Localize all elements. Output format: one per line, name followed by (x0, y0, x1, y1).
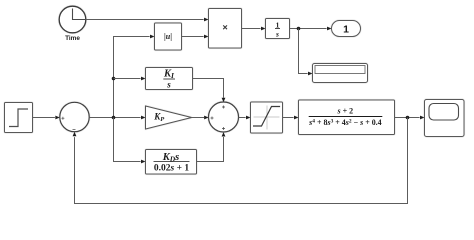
wire saturation to transfer fcn (283, 116, 299, 120)
wire step to sum S1 (33, 116, 60, 120)
display block (313, 64, 368, 83)
step symbol (9, 109, 28, 127)
Kp gain triangle (146, 106, 192, 129)
saturation block (251, 102, 283, 133)
fraction bar (309, 116, 383, 118)
wire KI to sum S2 top (193, 79, 226, 103)
saturation curve (253, 107, 280, 127)
junction node after integrator (297, 27, 301, 31)
S2 plus sign bottom (222, 127, 225, 130)
junction node after transfer fcn (406, 116, 410, 120)
wire branch down to KD (114, 118, 146, 164)
wire clock to product input 1 (86, 18, 209, 22)
outport oval 1 (332, 21, 361, 37)
S2 plus sign left (211, 117, 214, 120)
wire Kp to sum S2 left (192, 116, 209, 120)
junction node at KI row (112, 77, 116, 81)
product block (209, 9, 242, 49)
S1 plus sign (left input) (61, 117, 64, 120)
transfer fcn block (299, 100, 395, 135)
wire S1 output to Kp gain (89, 116, 145, 120)
wire branch to KI (114, 77, 146, 81)
S2 plus sign top (222, 106, 225, 109)
KD block (146, 150, 197, 175)
integrator block 1/s (266, 19, 290, 39)
clock block (Time source) (59, 6, 86, 33)
wire transfer fcn to scope (395, 116, 425, 120)
wire integrator to outport 1 (290, 27, 332, 31)
display screen (315, 66, 365, 74)
sum S2 (209, 102, 239, 132)
svg-text:KI: KI (163, 69, 175, 81)
svg-text:|u|: |u| (164, 32, 172, 41)
scope block (425, 100, 465, 137)
S1 minus sign (bottom input) (73, 129, 76, 131)
wire S2 to saturation (239, 116, 251, 120)
wire branch vertical up to abs row (114, 35, 155, 118)
svg-text:s: s (275, 29, 279, 38)
svg-text:s + 2: s + 2 (336, 107, 353, 116)
saturation axes (254, 106, 280, 130)
abs block |u| (155, 23, 182, 50)
svg-text:s4 + 8s3 + 4s2 − s + 0.4: s4 + 8s3 + 4s2 − s + 0.4 (308, 118, 381, 127)
step input block (5, 103, 33, 133)
wire KD to sum S2 bottom (197, 132, 226, 161)
svg-text:s: s (166, 80, 171, 90)
svg-text:0.02s + 1: 0.02s + 1 (154, 163, 189, 173)
scope screen (429, 104, 459, 121)
svg-text:1: 1 (343, 23, 349, 35)
junction node at main row (112, 116, 116, 120)
KI block (146, 68, 193, 90)
wire abs to product input 2 (182, 35, 209, 39)
svg-text:Time: Time (65, 35, 80, 42)
wire junction down to display (299, 29, 313, 76)
feedback wire transfer fcn to sum S1 bottom (73, 118, 408, 204)
wire product to integrator (242, 27, 266, 31)
sum S1 (60, 102, 89, 131)
